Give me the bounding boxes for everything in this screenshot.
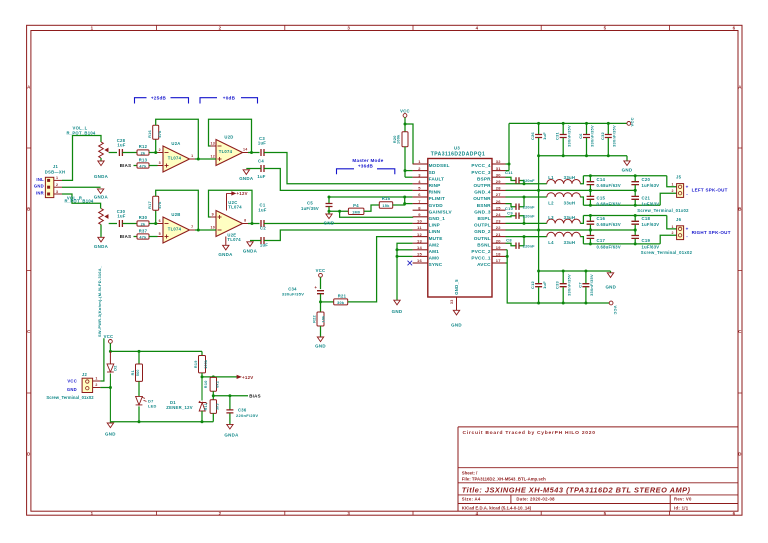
svg-text:SW-PWR-3(Kohm)-(M-9LPD-316A_: SW-PWR-3(Kohm)-(M-9LPD-316A_ xyxy=(97,265,102,337)
svg-text:OUTPL: OUTPL xyxy=(474,223,491,228)
svg-text:TL074: TL074 xyxy=(227,237,241,242)
svg-text:TL074: TL074 xyxy=(228,205,242,210)
svg-text:1uF: 1uF xyxy=(117,143,125,148)
svg-text:R1: R1 xyxy=(131,370,135,375)
svg-text:LINP: LINP xyxy=(429,223,440,228)
svg-text:6: 6 xyxy=(159,219,161,223)
svg-text:TL074: TL074 xyxy=(168,155,182,160)
svg-text:Id: 1/1: Id: 1/1 xyxy=(674,505,689,510)
svg-text:1uF: 1uF xyxy=(258,207,266,212)
svg-text:GNDA: GNDA xyxy=(243,248,258,253)
svg-text:C8: C8 xyxy=(506,237,512,242)
svg-text:TL074: TL074 xyxy=(219,149,233,154)
svg-text:+: + xyxy=(686,226,689,231)
svg-text:6: 6 xyxy=(733,26,736,31)
svg-text:330nF/35V: 330nF/35V xyxy=(566,125,571,147)
svg-text:+25dB: +25dB xyxy=(151,95,167,100)
svg-text:U2B: U2B xyxy=(171,212,180,217)
svg-text:12: 12 xyxy=(211,155,216,159)
svg-text:-: - xyxy=(686,192,688,197)
svg-text:R37: R37 xyxy=(139,229,148,234)
svg-text:GND_2: GND_2 xyxy=(474,229,491,234)
svg-text:5: 5 xyxy=(159,232,161,236)
svg-text:AM2: AM2 xyxy=(429,242,440,247)
svg-text:220nF/25V: 220nF/25V xyxy=(236,413,258,418)
svg-text:B: B xyxy=(27,207,30,212)
svg-text:100k: 100k xyxy=(397,134,401,144)
svg-text:2: 2 xyxy=(56,183,58,187)
svg-text:30: 30 xyxy=(496,172,502,177)
svg-text:330nF/35V: 330nF/35V xyxy=(589,274,594,296)
svg-text:R17: R17 xyxy=(148,201,152,209)
svg-text:C21: C21 xyxy=(642,196,651,201)
svg-text:C16: C16 xyxy=(597,216,606,221)
svg-text:33uH: 33uH xyxy=(564,240,576,245)
svg-text:2: 2 xyxy=(671,231,673,235)
svg-text:10k: 10k xyxy=(322,315,326,323)
svg-text:C: C xyxy=(27,329,31,334)
svg-text:1: 1 xyxy=(91,26,94,31)
svg-text:LINN: LINN xyxy=(429,229,441,234)
svg-text:VCC: VCC xyxy=(104,334,114,339)
svg-text:GND_4: GND_4 xyxy=(474,190,491,195)
svg-text:MODSEL: MODSEL xyxy=(429,163,450,168)
svg-text:GND_3: GND_3 xyxy=(474,209,491,214)
svg-text:C31: C31 xyxy=(555,131,560,140)
svg-text:P4: P4 xyxy=(353,203,359,208)
svg-text:330nF/35V: 330nF/35V xyxy=(612,125,617,147)
svg-text:C17: C17 xyxy=(597,238,606,243)
svg-text:Screw_Terminal_01x02: Screw_Terminal_01x02 xyxy=(641,250,693,255)
svg-text:1uF: 1uF xyxy=(117,214,125,219)
svg-text:29: 29 xyxy=(496,179,502,184)
svg-text:220nF: 220nF xyxy=(523,178,535,183)
svg-text:BSNL: BSNL xyxy=(477,242,490,247)
svg-text:2: 2 xyxy=(159,148,161,152)
svg-text:C18: C18 xyxy=(642,216,651,221)
svg-text:7: 7 xyxy=(191,225,193,229)
svg-text:FAULT: FAULT xyxy=(429,176,445,181)
svg-text:A: A xyxy=(27,84,31,89)
svg-text:22: 22 xyxy=(496,225,502,230)
svg-text:D: D xyxy=(738,452,741,457)
svg-text:C14: C14 xyxy=(597,177,606,182)
svg-text:560: 560 xyxy=(136,369,140,376)
svg-text:2: 2 xyxy=(219,511,222,516)
svg-text:10: 10 xyxy=(417,219,423,224)
svg-text:AM1: AM1 xyxy=(429,249,440,254)
svg-text:C12: C12 xyxy=(530,280,535,289)
svg-text:23: 23 xyxy=(496,219,502,224)
svg-text:GND: GND xyxy=(605,284,616,289)
svg-text:1uF: 1uF xyxy=(258,141,266,146)
svg-text:INL: INL xyxy=(36,177,44,182)
svg-text:3: 3 xyxy=(347,511,350,516)
svg-text:GAIN/SLV: GAIN/SLV xyxy=(429,209,453,214)
svg-text:2: 2 xyxy=(95,383,97,387)
svg-text:U2A: U2A xyxy=(171,141,180,146)
svg-text:GND: GND xyxy=(34,184,44,189)
svg-text:R21: R21 xyxy=(338,293,347,298)
svg-text:TPA3116D2DADPQ1: TPA3116D2DADPQ1 xyxy=(431,151,485,157)
svg-text:OUTNR: OUTNR xyxy=(473,196,491,201)
svg-text:PVCC_1: PVCC_1 xyxy=(471,256,490,261)
svg-text:24: 24 xyxy=(496,212,502,217)
svg-text:33uH: 33uH xyxy=(564,175,576,180)
svg-text:14: 14 xyxy=(417,245,423,250)
svg-text:C26: C26 xyxy=(530,131,535,140)
svg-text:L2: L2 xyxy=(548,201,554,206)
svg-text:11: 11 xyxy=(417,225,422,230)
svg-text:15k: 15k xyxy=(382,204,390,208)
svg-text:C9: C9 xyxy=(507,210,513,215)
svg-text:3: 3 xyxy=(347,26,350,31)
svg-text:AM0: AM0 xyxy=(429,256,440,261)
svg-text:D1: D1 xyxy=(170,400,176,405)
svg-text:J5: J5 xyxy=(676,175,682,180)
svg-text:1uF/35V: 1uF/35V xyxy=(301,206,319,211)
svg-text:6: 6 xyxy=(733,511,736,516)
svg-text:3: 3 xyxy=(56,190,58,194)
svg-text:MUTE: MUTE xyxy=(429,236,443,241)
svg-text:0.68uF/63V: 0.68uF/63V xyxy=(597,222,621,227)
svg-text:KiCad E.D.A. kicad (5.1.4-0-1: KiCad E.D.A. kicad (5.1.4-0-10_14) xyxy=(462,505,532,510)
svg-text:PVCC_2: PVCC_2 xyxy=(471,249,490,254)
svg-text:RIGHT SPK-OUT: RIGHT SPK-OUT xyxy=(692,230,731,235)
svg-text:1uF/63V: 1uF/63V xyxy=(642,244,660,249)
svg-text:2k: 2k xyxy=(141,222,146,226)
svg-text:+: + xyxy=(314,285,317,290)
svg-text:47k: 47k xyxy=(139,235,147,239)
svg-text:R19: R19 xyxy=(194,360,198,368)
svg-text:13: 13 xyxy=(417,238,423,243)
svg-text:GNDA: GNDA xyxy=(94,174,109,179)
svg-text:VCC: VCC xyxy=(316,268,326,273)
svg-text:1uF/63V: 1uF/63V xyxy=(642,201,660,206)
svg-text:GND: GND xyxy=(67,387,77,392)
svg-text:PVCC_3: PVCC_3 xyxy=(471,170,490,175)
svg-text:-: - xyxy=(686,234,688,239)
svg-text:19: 19 xyxy=(496,245,502,250)
svg-text:GND: GND xyxy=(622,167,633,172)
svg-text:OUTPR: OUTPR xyxy=(473,183,491,188)
svg-text:13: 13 xyxy=(211,142,216,146)
svg-text:47k: 47k xyxy=(158,201,162,209)
svg-text:1uF: 1uF xyxy=(542,132,547,140)
svg-text:100k: 100k xyxy=(204,360,208,369)
svg-text:GNDA: GNDA xyxy=(94,194,109,199)
svg-text:33uH: 33uH xyxy=(564,201,576,206)
svg-text:C6: C6 xyxy=(578,133,583,139)
svg-text:GND: GND xyxy=(392,309,403,314)
svg-text:PLIMIT: PLIMIT xyxy=(429,196,445,201)
svg-text:TL074: TL074 xyxy=(168,226,182,231)
svg-text:Title: JSXINGHE XH-M543 (TPA31: Title: JSXINGHE XH-M543 (TPA3116D2 BTL S… xyxy=(462,485,691,494)
svg-text:5: 5 xyxy=(604,26,607,31)
svg-text:47k: 47k xyxy=(139,164,147,168)
svg-text:GNDA: GNDA xyxy=(94,244,109,249)
svg-text:220nF: 220nF xyxy=(523,243,535,248)
svg-text:+12V: +12V xyxy=(237,191,248,196)
svg-text:33: 33 xyxy=(450,299,454,304)
svg-text:R10: R10 xyxy=(204,380,208,388)
svg-text:C15: C15 xyxy=(597,196,606,201)
svg-text:27: 27 xyxy=(496,192,502,197)
svg-text:L4: L4 xyxy=(548,240,554,245)
svg-text:VCC: VCC xyxy=(400,108,410,113)
svg-text:2k: 2k xyxy=(141,151,146,155)
svg-text:220nF: 220nF xyxy=(523,204,535,209)
svg-text:33uH: 33uH xyxy=(564,215,576,220)
svg-text:18: 18 xyxy=(496,252,502,257)
svg-text:R16: R16 xyxy=(148,130,152,138)
svg-text:47k: 47k xyxy=(158,130,162,138)
svg-text:32: 32 xyxy=(496,159,502,164)
svg-text:C7: C7 xyxy=(577,282,582,288)
svg-text:3k3: 3k3 xyxy=(216,403,220,410)
svg-text:28: 28 xyxy=(496,186,502,191)
svg-text:GVDD: GVDD xyxy=(429,203,444,208)
svg-text:R12: R12 xyxy=(139,144,148,149)
svg-text:D: D xyxy=(27,452,30,457)
svg-text:OUTNL: OUTNL xyxy=(474,236,491,241)
svg-text:RINP: RINP xyxy=(429,183,441,188)
svg-text:0.68uF/63V: 0.68uF/63V xyxy=(597,183,621,188)
svg-text:LEFT SPK-OUT: LEFT SPK-OUT xyxy=(692,188,728,193)
svg-text:12: 12 xyxy=(417,232,423,237)
svg-text:0.68uF/63V: 0.68uF/63V xyxy=(597,244,621,249)
svg-text:220nF: 220nF xyxy=(523,213,535,218)
svg-text:L3: L3 xyxy=(548,215,554,220)
svg-text:16: 16 xyxy=(417,258,423,263)
svg-text:25: 25 xyxy=(496,205,502,210)
svg-text:Master Mode: Master Mode xyxy=(352,158,383,163)
svg-text:1uF: 1uF xyxy=(257,174,265,179)
svg-text:330nF/35V: 330nF/35V xyxy=(566,274,571,296)
svg-text:R22: R22 xyxy=(313,315,317,323)
svg-text:VCC: VCC xyxy=(67,378,77,383)
svg-text:330nF/35V: 330nF/35V xyxy=(590,125,595,147)
svg-text:26: 26 xyxy=(496,199,502,204)
svg-text:GND_1: GND_1 xyxy=(429,216,446,221)
svg-text:+0dB: +0dB xyxy=(223,95,236,100)
svg-text:C19: C19 xyxy=(642,238,651,243)
svg-text:GNDA: GNDA xyxy=(224,432,239,437)
svg-text:U2D: U2D xyxy=(224,135,233,140)
svg-text:10: 10 xyxy=(211,226,216,230)
svg-text:C2: C2 xyxy=(260,226,266,231)
svg-text:C11: C11 xyxy=(505,170,513,175)
svg-text:20: 20 xyxy=(496,238,502,243)
svg-text:J2: J2 xyxy=(82,372,88,377)
svg-text:File: TPA3116D2_XH-M543_BTL-Am: File: TPA3116D2_XH-M543_BTL-Amp.sch xyxy=(462,477,546,482)
svg-text:R15: R15 xyxy=(382,196,391,201)
svg-text:BSPL: BSPL xyxy=(478,216,491,221)
svg-text:GND: GND xyxy=(105,432,116,437)
svg-text:AVCC: AVCC xyxy=(477,262,491,267)
svg-text:D2: D2 xyxy=(113,365,117,370)
svg-text:RINN: RINN xyxy=(429,190,442,195)
svg-text:C20: C20 xyxy=(642,177,651,182)
svg-text:GND: GND xyxy=(315,343,326,348)
svg-text:Date: 2020-02-08: Date: 2020-02-08 xyxy=(516,497,555,502)
svg-text:PVCC_4: PVCC_4 xyxy=(471,163,490,168)
svg-text:C: C xyxy=(738,329,742,334)
svg-text:VCC: VCC xyxy=(613,306,618,315)
svg-text:Circuit Board Traced by CyberP: Circuit Board Traced by CyberPH HILO 202… xyxy=(463,430,596,436)
svg-text:8: 8 xyxy=(244,219,246,223)
svg-text:GND: GND xyxy=(324,220,335,225)
svg-text:5: 5 xyxy=(604,511,607,516)
svg-text:R11: R11 xyxy=(204,403,208,411)
svg-text:C33: C33 xyxy=(555,280,560,289)
svg-text:Size: A4: Size: A4 xyxy=(462,497,481,502)
svg-text:1: 1 xyxy=(671,183,673,187)
svg-text:Sheet: /: Sheet: / xyxy=(462,470,478,475)
svg-text:R_POT_B104: R_POT_B104 xyxy=(64,199,93,204)
svg-text:+36dB: +36dB xyxy=(358,164,374,169)
svg-text:1: 1 xyxy=(671,225,673,229)
svg-text:L1: L1 xyxy=(548,175,554,180)
svg-text:BSNR: BSNR xyxy=(477,203,491,208)
svg-text:INR: INR xyxy=(36,190,44,195)
svg-text:A: A xyxy=(738,84,742,89)
svg-text:15: 15 xyxy=(417,252,423,257)
svg-text:14: 14 xyxy=(243,148,248,152)
svg-text:U3: U3 xyxy=(454,145,460,150)
svg-text:1: 1 xyxy=(91,511,94,516)
svg-text:1: 1 xyxy=(95,377,97,381)
svg-text:6k2: 6k2 xyxy=(216,381,220,388)
svg-text:R13: R13 xyxy=(139,158,148,163)
svg-text:1M0: 1M0 xyxy=(352,210,360,214)
svg-text:BIAS: BIAS xyxy=(120,163,132,168)
svg-text:J6: J6 xyxy=(676,217,682,222)
svg-text:R_POT_B104: R_POT_B104 xyxy=(66,131,95,136)
svg-text:C32: C32 xyxy=(600,131,605,140)
svg-text:R30: R30 xyxy=(139,215,148,220)
svg-text:9: 9 xyxy=(212,213,214,217)
svg-text:1: 1 xyxy=(56,176,58,180)
svg-text:LED: LED xyxy=(148,403,157,408)
svg-text:GNDA: GNDA xyxy=(239,176,254,181)
svg-text:4: 4 xyxy=(476,26,479,31)
svg-text:1uF: 1uF xyxy=(542,281,547,289)
svg-text:SD: SD xyxy=(429,170,436,175)
svg-text:1uF/63V: 1uF/63V xyxy=(642,222,660,227)
svg-text:2: 2 xyxy=(219,26,222,31)
svg-text:31: 31 xyxy=(496,166,502,171)
svg-text:0.68uF/63V: 0.68uF/63V xyxy=(597,201,621,206)
svg-text:BIAS: BIAS xyxy=(249,394,261,399)
svg-text:Rev: V0: Rev: V0 xyxy=(674,497,692,502)
svg-text:SYNC: SYNC xyxy=(429,262,443,267)
svg-text:B: B xyxy=(738,207,741,212)
svg-text:BSPR: BSPR xyxy=(477,176,491,181)
svg-text:ZENER_12V: ZENER_12V xyxy=(166,405,193,410)
svg-text:+12V: +12V xyxy=(242,375,254,380)
svg-text:3: 3 xyxy=(159,161,161,165)
svg-text:Screw_Terminal_01x02: Screw_Terminal_01x02 xyxy=(637,208,689,213)
svg-text:VCC: VCC xyxy=(630,117,635,126)
svg-text:30k: 30k xyxy=(337,301,345,305)
svg-text:GNDA: GNDA xyxy=(218,252,233,257)
svg-text:17: 17 xyxy=(496,258,502,263)
svg-text:1: 1 xyxy=(191,154,193,158)
svg-text:1uF/63V: 1uF/63V xyxy=(642,183,660,188)
svg-text:Screw_Terminal_01x02: Screw_Terminal_01x02 xyxy=(46,395,94,400)
svg-text:GND: GND xyxy=(451,322,462,327)
svg-text:GND_5: GND_5 xyxy=(454,279,459,295)
svg-text:C4: C4 xyxy=(258,158,264,163)
svg-text:BIAS: BIAS xyxy=(120,234,132,239)
svg-text:2: 2 xyxy=(671,189,673,193)
svg-text:21: 21 xyxy=(496,232,502,237)
svg-text:+: + xyxy=(686,184,689,189)
svg-text:DSB—XH: DSB—XH xyxy=(45,169,66,174)
svg-text:4: 4 xyxy=(476,511,479,516)
svg-text:330uF/35V: 330uF/35V xyxy=(282,292,304,297)
